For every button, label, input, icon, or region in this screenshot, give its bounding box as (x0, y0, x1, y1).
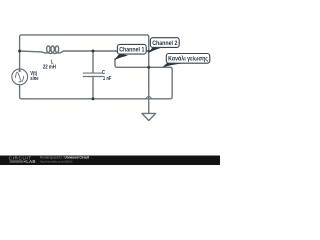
svg-text:C: C (102, 69, 105, 76)
svg-text:22 mH: 22 mH (43, 64, 57, 71)
capacitor plate bottom (83, 76, 102, 78)
wire: outer loop - left rail up, top rail right, vertical #1 down to bottom rail (20, 35, 149, 99)
source minus sign (18, 80, 21, 83)
junction dot at left rail / inductor feed (18, 50, 21, 53)
source plus sign (18, 69, 21, 82)
svg-text:Channel 1: Channel 1 (119, 47, 145, 54)
callout Channel 2 tail (148, 47, 163, 53)
svg-text:Channel 2: Channel 2 (152, 41, 178, 48)
svg-text:sine: sine (30, 76, 39, 83)
junction dot at capacitor bottom (92, 97, 95, 100)
inductor L coil (3 tall loops) (42, 46, 63, 54)
ground triangle (142, 113, 156, 120)
svg-text:1 nF: 1 nF (103, 75, 112, 82)
callout ground-channel tail (162, 62, 186, 67)
svg-text:RomanspaceX2 / Unnamed Circuit: RomanspaceX2 / Unnamed Circuit (40, 155, 90, 159)
sine wave inside source (15, 72, 23, 81)
svg-text:LAB: LAB (26, 159, 36, 164)
callout ground-channel box (166, 54, 210, 64)
footer logo strike lines (10, 161, 24, 162)
ground stem (148, 99, 150, 114)
callout Channel 1 box (117, 44, 146, 54)
callout Channel 1 tail (114, 53, 128, 60)
wire: inductor feed from left rail junction (20, 50, 42, 53)
wire: inductor output to vertical #1 junction (62, 50, 148, 53)
callout Channel 2 box (150, 38, 179, 48)
capacitor C top lead (92, 51, 94, 73)
capacitor C bottom lead (92, 77, 94, 99)
junction dot at inductor output / vertical #1 (148, 50, 150, 52)
footer black bar (0, 156, 220, 166)
capacitor plate top (83, 72, 102, 74)
wire: source bottom, bottom rail, right vertical up, horizontal wire left, probe stub up (20, 59, 173, 99)
footer logo arrow (23, 160, 25, 162)
junction dot at wire crossing (147, 66, 150, 69)
svg-text:http://circuitlab.com/c69t9o5: http://circuitlab.com/c69t9o5 (40, 159, 73, 163)
ground junction feet (145, 96, 152, 99)
svg-text:Κανάλι γείωσης: Κανάλι γείωσης (168, 56, 208, 63)
junction dot at capacitor top (92, 50, 95, 53)
source V circle (12, 69, 28, 85)
